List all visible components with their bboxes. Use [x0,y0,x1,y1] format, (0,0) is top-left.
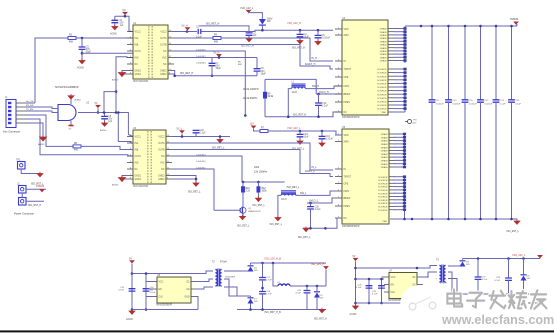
node C10 [317,93,320,96]
svg-text:ISO_RST_L: ISO_RST_L [507,231,520,233]
wire C10 top [318,94,320,103]
node C27 t [477,257,480,260]
node gate out [97,111,100,114]
wire vertical B [145,274,147,310]
resistor R6 [263,92,267,98]
resistor R12 [257,187,260,193]
wire U5 source [394,196,405,198]
wire ferrite in [273,263,278,286]
ground ISO_RST_H (C3) [246,37,252,42]
svg-text:ISO_RST_L: ISO_RST_L [237,226,250,228]
wire U4 drain [394,56,405,58]
svg-text:SOURCE: SOURCE [378,200,388,202]
svg-text:SOURCE: SOURCE [378,210,388,212]
wire U4 drain [394,40,405,42]
diode D1 [259,19,266,25]
svg-text:56pF: 56pF [261,73,267,75]
wire 12V to R7 [254,129,261,131]
wire 5V to C1 [115,15,125,16]
svg-text:DRAIN: DRAIN [380,34,387,37]
wire J2 link [21,193,23,198]
wire U7 VCC link [382,276,385,278]
node A bottom [131,308,134,311]
capacitor C16 [143,289,150,291]
wire C22 stub [195,133,197,137]
svg-text:ISO_RST_H: ISO_RST_H [293,113,307,116]
wire C7 down [211,66,213,76]
svg-text:DRAIN: DRAIN [380,37,387,40]
watermark url text [441,313,554,327]
node C20 [309,202,312,205]
wire T3 sec bottom [448,279,457,295]
svg-text:0.1uF: 0.1uF [515,104,521,106]
wire D9 top [523,259,525,275]
svg-text:5V: 5V [95,102,98,105]
connector J2 pin1 [17,182,26,193]
svg-text:SOURCE: SOURCE [377,102,387,104]
svg-text:Aux Connector: Aux Connector [3,130,20,134]
svg-text:SOURCE: SOURCE [378,180,388,182]
wire U4 drain [394,60,405,62]
wire U1 NC net [174,51,245,116]
wire D7 bottom [250,304,252,310]
svg-text:UVLO_H: UVLO_H [319,91,329,94]
wire bus vertical lower [511,102,513,219]
svg-text:0.022uF: 0.022uF [452,104,461,106]
svg-text:INA: INA [135,37,139,40]
wire U6 D1 [196,279,213,282]
svg-text:INB: INB [135,45,139,47]
svg-text:ISO_RST_H: ISO_RST_H [314,318,327,320]
node bus extra [420,25,423,28]
svg-text:BBSW: BBSW [344,94,352,96]
svg-text:OUTA: OUTA [160,37,167,40]
wire U4 source [394,68,405,70]
node R12 top [257,181,260,184]
wire U4 drain [394,34,405,36]
svg-text:5V: 5V [123,8,126,12]
wire bus vertical lower [431,102,433,219]
wire C26 vertical [381,279,383,303]
svg-text:ISO_RET_L: ISO_RET_L [287,186,301,189]
wire U1 INC [174,57,257,59]
wire U1 OUTB FAULT_H [174,45,333,70]
svg-text:36V: 36V [254,270,258,272]
node bus bottom [431,218,434,221]
wire D6 up [250,263,252,265]
svg-text:AGND: AGND [110,33,117,36]
op-amp U3 ISO7242 isolator [127,127,172,188]
svg-text:CLK: CLK [391,292,396,294]
node bus top [495,25,498,28]
svg-text:SOURCE: SOURCE [378,183,388,185]
svg-text:SOURCE: SOURCE [377,73,387,75]
svg-text:SOURCE: SOURCE [377,91,387,93]
node U3 gnd2 [195,178,198,181]
wire U5 drain [394,153,405,155]
svg-text:ISO_RET_H: ISO_RET_H [206,23,220,26]
watermark logo [400,273,440,325]
svg-text:MMBF0201N: MMBF0201N [248,211,261,213]
svg-text:PVBUS: PVBUS [36,185,45,188]
node bus top [510,25,513,28]
svg-text:2.2uF: 2.2uF [315,209,321,211]
wire D8 up [462,259,464,260]
wire 5V vertical A [131,264,133,311]
None [314,292,320,298]
svg-text:VCC: VCC [159,282,164,284]
svg-text:OUTC: OUTC [135,51,142,53]
ground AGND (J1) [40,135,47,141]
node A top [131,272,134,275]
svg-text:ISO_RET_H: ISO_RET_H [180,72,194,75]
svg-text:PAD: PAD [382,111,387,114]
svg-text:SW_H: SW_H [312,85,319,88]
wire to C5b [317,30,319,35]
wire T2 sec top [224,270,251,272]
svg-text:TP1: TP1 [16,158,21,161]
wire U4 source [394,72,405,74]
wire J1 to R2 [35,38,68,103]
power 5V_H (INC) [217,54,221,56]
resistor R4 [213,37,221,40]
capacitor C26 [378,286,385,288]
wire rail osc L [242,181,285,183]
wire U4 pad [388,111,405,113]
wire bus vertical lower [464,102,466,219]
wire U6 VCC [146,281,154,283]
svg-text:GND2: GND2 [158,176,165,178]
wire rail ISO_12V_H_B [251,262,327,264]
wire U3 GND1 [122,176,127,178]
wire rail ISO_RET_H [175,75,257,77]
svg-text:AGND: AGND [77,67,84,70]
svg-text:0.1uF: 0.1uF [118,290,124,292]
capacitor C7 [209,63,216,65]
wire U5 source [394,192,405,194]
svg-text:DRAIN: DRAIN [381,160,388,163]
wire R2 to U1 INA [76,37,133,39]
wire J1 pin5 to U3 [25,119,133,156]
wire U4 source [394,104,405,106]
svg-text:0.022uF: 0.022uF [469,104,478,106]
node C26 t [380,278,383,281]
capacitor C27 [475,277,482,279]
wire U5 drain [394,159,405,161]
power [130,261,134,263]
resistor R2 [68,37,76,40]
wire gate out to U1 OUTC [116,57,133,113]
wire mid rail L [356,278,385,280]
node bus top [431,25,434,28]
wire C24 bottom [306,293,308,310]
capacitor C17 [259,278,266,280]
svg-text:SOURCE: SOURCE [377,87,387,89]
svg-text:ISO_RST_L: ISO_RST_L [270,224,283,226]
wire U6 GND [196,297,198,310]
node B top [145,272,148,275]
wire rail ISO_RST_H [265,112,342,117]
svg-text:RX_EN: RX_EN [26,105,34,107]
svg-text:DRV8860PWPR: DRV8860PWPR [342,225,360,228]
wire U1 GND1b [122,73,127,75]
node bus top [479,25,482,28]
svg-text:NC: NC [344,112,348,114]
capacitor C15 [129,289,136,291]
svg-text:DRAIN: DRAIN [380,53,387,56]
wire D4 bottom [316,298,318,310]
wire HV top bus [405,25,517,27]
svg-text:GND2: GND2 [160,74,167,76]
capacitor C4 [297,34,304,36]
node D9 t [522,257,525,260]
svg-text:1uS0(NC): 1uS0(NC) [196,161,206,163]
wire J1 pin1 [25,102,35,104]
wire R12 down [257,192,259,198]
svg-text:CPE: CPE [344,77,349,79]
wire T2 sec center [224,279,237,296]
wire 5V gate pullup [97,108,99,112]
svg-text:www.elecfans.com: www.elecfans.com [441,313,554,327]
svg-text:FAULT_H: FAULT_H [305,63,316,66]
svg-text:10uF: 10uF [304,137,310,139]
None [460,261,466,267]
svg-text:0.022uF: 0.022uF [322,38,331,40]
svg-text:5V: 5V [353,255,356,258]
svg-text:DRAIN: DRAIN [380,28,387,31]
svg-text:NC: NC [344,218,348,220]
svg-text:VCC1: VCC1 [135,137,142,139]
wire U6 EN [146,288,154,290]
wire J2 pin1 PVBUS [26,188,46,190]
svg-text:SOURCE: SOURCE [377,98,387,100]
wire J2 pin2 [26,200,44,202]
resistor R10 [241,187,244,193]
wire U4 drain [394,31,405,33]
connector J1 Aux Connector [3,96,25,134]
svg-text:12k 100kHz: 12k 100kHz [254,171,268,174]
wire U5 source [394,186,405,188]
node RET_H [173,75,176,78]
node C10 gnd [317,115,320,118]
svg-text:DRAIN: DRAIN [380,60,387,63]
node rail L [324,227,327,230]
wire U5 source [394,202,405,204]
wire C17-C18 link [262,280,264,291]
node bus top [447,25,450,28]
node 5V [124,15,127,18]
svg-text:VCC1: VCC1 [135,32,142,34]
wire L1 to U4 SW [306,86,343,89]
wire U5 drain [394,146,405,148]
svg-text:IN_L: IN_L [312,166,318,169]
wire C20 down [310,209,312,228]
svg-text:ISO_12V_L: ISO_12V_L [513,254,527,257]
wire U3 NC to osc rail [172,156,242,182]
svg-text:4.7uF: 4.7uF [295,293,301,295]
node 5V_H [186,30,189,33]
svg-text:0.22uF: 0.22uF [326,139,334,141]
wire U4 drain [394,37,405,39]
wire C18 down [299,137,301,141]
wire R4 to U4 IN [221,38,333,61]
svg-text:100k: 100k [254,167,260,169]
wire U3 VCC2 [172,136,230,138]
bottom border line [0,330,554,332]
wire supply H top rail [132,271,213,274]
svg-text:DRAIN: DRAIN [381,140,388,143]
ground ISO_RST_L (bus) [514,219,520,224]
inductor L4 [278,284,290,286]
wire to D1 [249,13,263,19]
wire C4 down [299,37,301,41]
svg-text:12V: 12V [250,123,255,126]
wire ferrite out [290,285,326,287]
svg-text:SOURCE: SOURCE [378,203,388,205]
svg-text:SOURCE: SOURCE [378,177,388,179]
power [123,12,127,14]
node vert [244,114,247,117]
wire J1 pin2 to gate A [25,107,58,109]
svg-text:DRAIN: DRAIN [380,56,387,59]
wire T3 sec top [448,265,463,267]
wire D4 top [316,286,318,293]
wire drain collector U4 [404,26,406,63]
svg-text:AGND: AGND [38,143,45,146]
node D7 b [249,308,252,311]
svg-text:NC: NC [135,64,139,66]
svg-text:FAULT_L: FAULT_L [305,170,316,173]
svg-text:OUTA: OUTA [158,142,165,145]
node bus pad [403,218,406,221]
wire U4 source [394,108,405,110]
wire pwr stub [218,56,220,58]
svg-text:36V: 36V [466,264,470,266]
wire U5 drain [394,133,405,135]
node C26 b [380,302,383,305]
wire U4 drain [394,53,405,55]
wire U4 source [394,86,405,88]
wire C5b down [317,38,319,42]
wire gate out to U3 VCC1 [116,113,133,137]
ground AGND (C5) [79,59,85,64]
svg-text:DRAIN: DRAIN [381,153,388,156]
wire C8 top [256,58,258,69]
node bus pad2 [411,218,414,221]
svg-text:INB: INB [135,150,139,152]
wire U2 output [78,112,116,114]
svg-text:SOURCE: SOURCE [378,187,388,189]
ground ISO_RST_L (TP1) [37,172,43,177]
svg-text:SOURCE: SOURCE [377,105,387,107]
svg-text:36V: 36V [254,301,258,303]
svg-text:5V_L: 5V_L [177,127,183,130]
wire U1 OUTA [174,37,213,39]
node C28 b [507,293,510,296]
node RET_L [219,135,222,138]
ground AGND (U3) [119,176,126,182]
wire D7 top [250,296,252,299]
wire to C5 [81,38,83,47]
svg-text:DRAIN: DRAIN [381,136,388,139]
svg-text:1uF: 1uF [120,25,125,27]
wire source collector U5 [404,177,406,219]
wire supply L top rail [356,266,438,269]
svg-text:ISO7242CDW: ISO7242CDW [133,80,149,83]
wire C6 to AGND [104,119,106,123]
wire bus vertical lower [495,102,497,219]
wire gate gnd [70,121,72,126]
capacitor C20 [307,207,314,209]
wire UVLO_H [316,93,342,95]
svg-text:EN: EN [159,289,163,291]
svg-text:EN: EN [391,285,395,287]
node B2 [103,111,106,114]
svg-text:SN6505BDBVR: SN6505BDBVR [156,305,173,307]
wire C7 top [211,58,213,63]
op-amp U7 SN6505 (L) [384,269,422,302]
wire supply L gnd rail [356,292,421,303]
wire C18 bottom lead [262,294,264,310]
power PVBUS [40,189,44,191]
svg-text:ISO_RST_L: ISO_RST_L [253,205,266,207]
svg-text:DRAIN: DRAIN [381,133,388,136]
wire R10 top lead [242,182,244,187]
ground ISO_RET_L (U3) [193,181,199,186]
inductor L3 [281,191,296,196]
wire J1 pin3 to gate B [25,111,58,113]
svg-text:Power Connector: Power Connector [14,212,34,216]
svg-text:OUTC: OUTC [135,156,142,158]
wire 5V_H stub [187,30,189,33]
svg-text:AGND: AGND [75,98,82,101]
svg-text:VCC2: VCC2 [158,137,165,139]
wire RT loop H [265,79,316,94]
node L rail [416,267,419,270]
connector J2 pin2 [19,198,27,206]
ground AGND (C6) [102,121,108,126]
node C19 top [321,130,324,133]
transformer T2 [215,269,221,287]
svg-text:DRAIN: DRAIN [381,163,388,166]
capacitor C28 [505,278,512,280]
wire L3 to U5 SW [296,191,335,195]
svg-text:ISO_12V_L: ISO_12V_L [288,127,302,130]
svg-text:0.1uF: 0.1uF [200,133,206,135]
svg-text:DRAIN: DRAIN [380,47,387,50]
ground AGND (gate top) [68,94,74,99]
power [246,10,250,12]
node C25 t [368,278,371,281]
svg-text:GND1: GND1 [135,179,142,181]
svg-text:0.022uF: 0.022uF [436,104,445,106]
svg-text:10uH: 10uH [281,199,287,201]
wire U5 source [394,199,405,201]
wire U3 GND1b [122,178,127,180]
wire U1 GND2a [172,71,175,76]
node fer top [272,262,275,265]
svg-text:VCC2: VCC2 [160,32,167,34]
capacitor C13 [493,100,500,102]
svg-text:SOURCE: SOURCE [378,207,388,209]
svg-text:4.7uF: 4.7uF [266,294,272,296]
transformer T3 [439,265,445,283]
wire U5 source [394,209,405,211]
wire C28 bottom [508,280,510,294]
wire bus vertical upper [448,26,450,100]
wire supply H gnd rail [132,309,198,311]
svg-text:GND1: GND1 [135,74,142,76]
